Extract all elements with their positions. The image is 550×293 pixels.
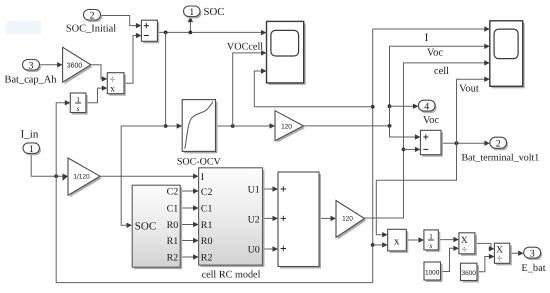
annotation highlight	[7, 21, 42, 34]
inport 2 SOC_Initial	[66, 10, 116, 35]
sum block Sum1	[141, 20, 159, 43]
wire I_in to Gain 1/120	[31, 153, 63, 176]
svg-text:R2: R2	[167, 253, 179, 264]
wire Gain120a Voc to Scope2 in2	[303, 46, 484, 126]
scope Scope2	[490, 21, 525, 89]
node I_in junction	[54, 174, 58, 178]
svg-text:cell: cell	[434, 66, 449, 77]
node Voc junction2	[388, 104, 392, 108]
wire SumU to Gain120b	[319, 217, 331, 219]
node lookup-in junction	[164, 124, 168, 128]
svg-text:s: s	[77, 104, 80, 113]
constant 3600	[461, 263, 480, 282]
wire Vout to Scope2 in4	[457, 79, 485, 143]
svg-text:1000: 1000	[425, 269, 440, 276]
node VOCcell junction	[231, 124, 235, 128]
wire R2 SOC to cellRC	[180, 256, 193, 258]
svg-text:x: x	[110, 85, 115, 95]
svg-text:2: 2	[496, 138, 501, 149]
inport 1 I_in	[21, 129, 41, 156]
svg-text:÷: ÷	[497, 253, 503, 264]
wire cell to SumVout minus	[404, 148, 416, 150]
wire U0 to SumU	[263, 248, 273, 250]
divide block Divide2	[494, 243, 511, 265]
wire SumVout to outport2	[441, 142, 485, 144]
svg-text:4: 4	[424, 101, 429, 112]
wire SOC down to lookup	[166, 32, 177, 126]
svg-text:C1: C1	[167, 204, 179, 215]
svg-text:R1: R1	[201, 220, 213, 231]
svg-text:R0: R0	[201, 236, 213, 247]
node I junction upper	[371, 105, 375, 109]
wire Divide1 to Divide2	[475, 243, 491, 248]
svg-text:1/120: 1/120	[73, 174, 90, 181]
svg-text:SOC_Initial: SOC_Initial	[66, 24, 116, 35]
outport 1 SOC	[184, 6, 225, 19]
svg-text:1: 1	[429, 232, 433, 241]
scope Scope1	[267, 21, 306, 85]
wire Bat_cap_Ah to Gain 3600	[40, 64, 58, 66]
svg-text:C1: C1	[201, 204, 213, 215]
svg-text:C2: C2	[167, 187, 179, 198]
gain 1/120	[68, 158, 102, 197]
wire SOC branch to SOC subsystem	[121, 126, 165, 225]
svg-text:I: I	[425, 32, 429, 44]
node cell junction	[402, 148, 406, 152]
wire Gain3600 to Divide top	[91, 65, 102, 79]
wire Divide2 to outport3	[510, 252, 519, 254]
node SOC junction2	[189, 31, 193, 35]
node SOC junction1	[164, 31, 168, 35]
svg-text:E_bat: E_bat	[521, 263, 545, 274]
wire Constant3600 to Divide2	[477, 257, 489, 272]
wire C2 SOC to cellRC	[180, 190, 193, 192]
gain 120 a	[275, 111, 305, 143]
svg-text:3: 3	[29, 60, 34, 71]
svg-text:cell RC model: cell RC model	[202, 269, 261, 280]
wire I to Scope1 in3	[254, 71, 372, 107]
svg-text:SOC: SOC	[135, 221, 156, 233]
svg-text:SOC: SOC	[204, 6, 225, 18]
wire Voc to SumVout plus	[390, 126, 416, 137]
wire Vout to Product top	[376, 143, 456, 235]
wire Product to Integrator2	[406, 239, 418, 241]
subsystem cell RC model	[199, 168, 265, 281]
wire Integrator2 to Divide1	[438, 239, 453, 241]
wire R1 SOC to cellRC	[180, 240, 193, 242]
wire I to Product bottom	[373, 244, 383, 246]
svg-text:VOCcell: VOCcell	[227, 42, 263, 53]
svg-text:3600: 3600	[67, 62, 83, 69]
divide block Divide0	[107, 73, 126, 96]
subsystem SOC	[132, 185, 182, 269]
svg-text:U0: U0	[248, 245, 260, 256]
svg-text:2: 2	[90, 10, 95, 21]
sum block SumU	[278, 172, 321, 269]
svg-text:÷: ÷	[462, 244, 468, 255]
svg-text:120: 120	[281, 123, 292, 130]
product X	[388, 229, 409, 253]
inport 3 Bat_cap_Ah	[5, 60, 58, 86]
svg-text:R2: R2	[201, 253, 213, 264]
svg-text:R1: R1	[167, 236, 179, 247]
wire Gain 1/120 to cell RC I	[100, 175, 193, 177]
wire SOC up to outport	[189, 22, 191, 32]
node Vout junction	[455, 141, 459, 145]
wire U2 to SumU	[263, 217, 273, 219]
outport 2 Bat_terminal_volt1	[462, 137, 540, 163]
svg-text:3: 3	[530, 248, 535, 259]
wire Integrator to Divide bottom	[86, 88, 102, 103]
lookup table SOC-OCV	[177, 100, 222, 168]
svg-text:R0: R0	[167, 220, 179, 231]
svg-text:SOC-OCV: SOC-OCV	[177, 157, 222, 168]
divide block Divide1	[459, 233, 477, 256]
svg-text:Bat_terminal_volt1: Bat_terminal_volt1	[462, 152, 540, 163]
gain 120 b	[336, 201, 366, 240]
wire Divide to Sum minus	[124, 36, 136, 84]
integrator2 1/s	[424, 230, 440, 252]
wire Gain120b cell to Scope2 in3	[365, 63, 485, 218]
outport 4 Voc	[418, 100, 439, 126]
wire U1 to SumU	[263, 188, 273, 190]
svg-text:Voc: Voc	[427, 48, 443, 59]
wire SOC_Initial to Sum	[101, 16, 137, 26]
svg-text:s: s	[430, 241, 433, 250]
svg-text:1: 1	[76, 95, 80, 104]
wire R0 SOC to cellRC	[180, 224, 193, 226]
wire Voc to outport4	[390, 105, 414, 107]
svg-text:I: I	[201, 172, 204, 183]
node Voc junction1	[388, 124, 392, 128]
node I junction lower	[371, 243, 375, 247]
svg-text:Vout: Vout	[459, 84, 479, 95]
svg-text:C2: C2	[201, 187, 213, 198]
svg-text:x: x	[394, 235, 400, 247]
gain 3600	[63, 47, 93, 84]
wire I feedback bottom to Scope2 in1	[56, 29, 484, 283]
svg-text:1: 1	[189, 7, 194, 18]
outport 3 E_bat	[521, 247, 545, 274]
svg-text:1: 1	[29, 144, 34, 155]
wire lookup out to Gain 120a	[216, 125, 270, 127]
wire VOCcell to Scope1 in2	[233, 53, 262, 126]
sum block SumVout	[420, 130, 443, 156]
svg-text:U1: U1	[248, 184, 260, 195]
svg-text:I_in: I_in	[21, 129, 39, 141]
svg-text:U2: U2	[248, 214, 260, 225]
wire C1 SOC to cellRC	[180, 207, 193, 209]
integrator 1/s	[70, 93, 87, 115]
svg-text:Voc: Voc	[423, 115, 439, 126]
svg-text:3600: 3600	[461, 270, 476, 277]
wire Sum out SOC to Scope1	[157, 31, 261, 33]
wire I_in up to Integrator	[56, 103, 65, 176]
svg-text:Bat_cap_Ah: Bat_cap_Ah	[5, 75, 58, 86]
wire Constant1000 to Divide1	[441, 248, 454, 271]
svg-text:120: 120	[342, 215, 353, 222]
constant 1000	[424, 262, 443, 282]
